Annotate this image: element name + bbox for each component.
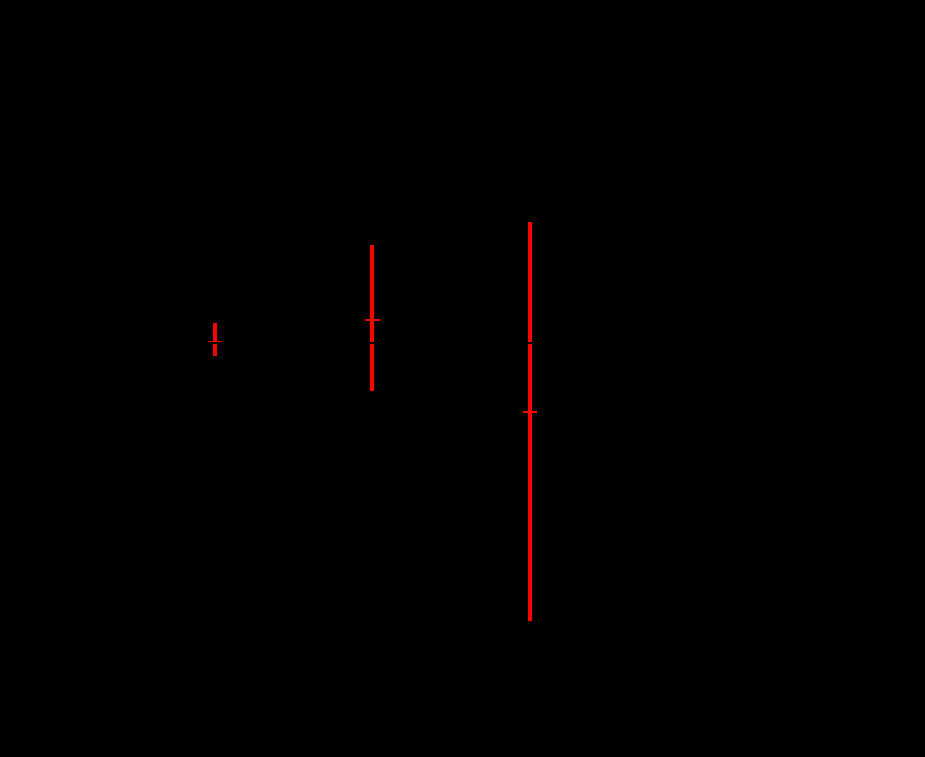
error bar 2 vertical line [370, 245, 374, 391]
black trend line crossing over the error bars [115, 342, 833, 344]
data marker 2 [365, 319, 380, 321]
error bar 1 vertical line [213, 323, 217, 356]
data marker 1 [208, 341, 222, 343]
data marker 3 [523, 411, 537, 413]
error bar 3 vertical line [528, 222, 532, 622]
